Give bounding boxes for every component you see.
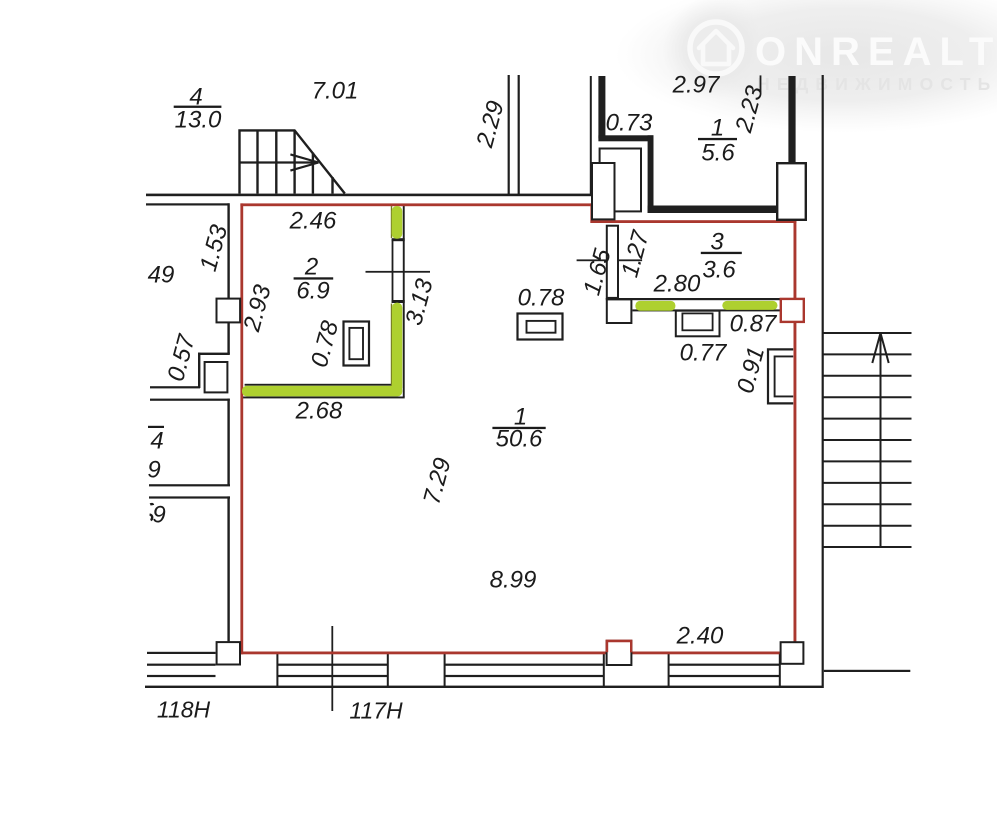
svg-text:2.68: 2.68 xyxy=(295,398,343,425)
svg-text:117Н: 117Н xyxy=(349,698,403,724)
left room right wall upper xyxy=(227,203,229,299)
svg-text:49: 49 xyxy=(148,262,175,289)
room3 left window box lower xyxy=(607,299,632,323)
svg-text:1: 1 xyxy=(711,115,724,142)
room1 step thick vertical xyxy=(648,135,654,213)
watermark blob xyxy=(615,0,997,133)
0.57 step vertical xyxy=(198,353,200,388)
svg-text:4: 4 xyxy=(150,428,163,455)
window box 0.91 inner (open right) xyxy=(775,356,794,396)
partial digit sliver before lower 9 xyxy=(150,504,153,520)
dark left edge of green vertical bars xyxy=(391,206,392,238)
top staircase walk line with arrow xyxy=(240,161,319,163)
top staircase outline xyxy=(240,130,345,193)
room1 thick wall left vertical xyxy=(598,76,605,139)
green bar room3 window 1 xyxy=(635,301,675,311)
top wall second line left room xyxy=(146,203,230,205)
red outline xyxy=(240,203,796,654)
red top line room2 xyxy=(240,203,593,206)
top middle partition line b xyxy=(518,75,520,194)
svg-text:2.80: 2.80 xyxy=(653,271,701,298)
room1 niche bottom thick xyxy=(598,135,653,141)
left wall lower xyxy=(227,496,229,641)
right staircase steps xyxy=(822,333,912,547)
pier box bottom-left corner xyxy=(217,642,240,664)
left rooms divider line 2 xyxy=(149,496,230,498)
top staircase steps xyxy=(258,130,295,193)
bottom band: black top segment left xyxy=(147,652,216,654)
room3 bottom wall top line xyxy=(606,298,781,300)
boxes xyxy=(205,149,806,666)
walls-black xyxy=(145,75,910,711)
red left vertical xyxy=(240,203,243,654)
svg-text:0.73: 0.73 xyxy=(606,110,653,137)
bottom band mid line 2 segments xyxy=(147,675,216,677)
pier box left wall upper xyxy=(217,299,241,323)
right shaft wall vertical xyxy=(822,75,824,688)
room3 left pier tall box xyxy=(607,226,618,298)
pillar room1 inner xyxy=(527,321,556,333)
svg-text:5.6: 5.6 xyxy=(701,140,735,167)
red pier box room3 right wall xyxy=(781,299,804,322)
svg-text:2.46: 2.46 xyxy=(289,208,337,235)
svg-text:13.0: 13.0 xyxy=(175,107,222,134)
left wall between piers xyxy=(227,323,229,355)
svg-text:9: 9 xyxy=(147,457,160,484)
red-top pier box bottom band xyxy=(607,641,632,665)
bottom band pier verticals xyxy=(276,653,278,687)
left rooms divider line 1 xyxy=(149,484,230,486)
red right vertical xyxy=(794,220,797,641)
room1 outer wall face xyxy=(590,76,592,194)
green L top black line xyxy=(245,384,393,386)
dimension tick 117H/118H xyxy=(331,626,333,711)
red room3 top line xyxy=(590,220,796,223)
svg-text:7.01: 7.01 xyxy=(312,78,359,105)
svg-text:8.99: 8.99 xyxy=(490,567,537,594)
room2 window right vertical line xyxy=(403,206,405,397)
window box 0.77 outer xyxy=(676,311,720,337)
stairs xyxy=(240,130,912,547)
svg-text:2.40: 2.40 xyxy=(676,623,724,650)
pier box bottom right black xyxy=(781,642,804,664)
dim tick 2.97 xyxy=(760,75,762,92)
room1 bottom thick band xyxy=(648,206,780,214)
line below 0.57 box xyxy=(150,399,230,401)
watermark circle ring xyxy=(690,22,742,74)
red bottom line xyxy=(240,652,779,655)
room1 right thick wall xyxy=(788,76,795,163)
window box 0.91 outer (open right at red wall) xyxy=(768,349,793,403)
red step vertical at 591 xyxy=(590,203,593,223)
top middle partition line a xyxy=(508,75,510,194)
window box 0.57 xyxy=(205,362,228,392)
green bar wall room2 top xyxy=(392,206,403,239)
green bar wall room2 bottom horizontal xyxy=(242,386,402,397)
svg-text:2.97: 2.97 xyxy=(672,72,721,99)
left wall mid xyxy=(227,399,229,486)
svg-text:0.77: 0.77 xyxy=(680,340,728,367)
svg-text:9: 9 xyxy=(152,502,165,529)
green L bottom black line xyxy=(241,397,405,399)
bottom band mid line 1 segments xyxy=(147,664,216,666)
window box 0.77 inner xyxy=(682,313,712,330)
green bars xyxy=(242,206,778,396)
pillar room1 outer xyxy=(518,314,563,340)
room2 window left vertical line xyxy=(392,240,394,304)
watermark gray wash xyxy=(615,0,997,133)
stairs bottom wall line right xyxy=(824,670,911,672)
svg-text:118Н: 118Н xyxy=(157,697,211,723)
0.57 lower horizontal to edge xyxy=(150,386,200,388)
svg-text:3.6: 3.6 xyxy=(702,257,736,284)
green bar wall room2 right lower xyxy=(392,303,402,393)
room1 outer wall window box xyxy=(592,163,615,219)
green bar room3 window 2 xyxy=(722,301,777,310)
bottom band bottom line xyxy=(145,686,823,688)
watermark house icon xyxy=(699,31,733,64)
room2 dimension line xyxy=(366,271,431,273)
svg-text:6.9: 6.9 xyxy=(296,278,329,305)
pillar room2 outer xyxy=(344,322,370,366)
svg-text:ONREALT: ONREALT xyxy=(755,30,997,74)
room1 right window box xyxy=(777,163,806,220)
top wall main horizontal xyxy=(146,194,591,197)
red top edge of that box xyxy=(606,640,633,653)
room2 window cap 2 xyxy=(392,300,405,303)
svg-text:0.87: 0.87 xyxy=(730,311,778,338)
right staircase arrow xyxy=(872,333,888,363)
svg-text:50.6: 50.6 xyxy=(496,426,543,453)
svg-text:2: 2 xyxy=(304,254,318,281)
room2 window cap 1 xyxy=(392,238,405,241)
room1 niche thin rect xyxy=(600,149,641,212)
0.57 step horizontal xyxy=(198,353,230,355)
right staircase walk line xyxy=(880,333,882,547)
svg-text:3: 3 xyxy=(710,229,724,256)
svg-text:0.78: 0.78 xyxy=(518,285,565,312)
pillar room2 inner xyxy=(349,328,363,359)
room3 bottom wall second line xyxy=(633,309,781,311)
room3 dimension line xyxy=(577,259,643,261)
